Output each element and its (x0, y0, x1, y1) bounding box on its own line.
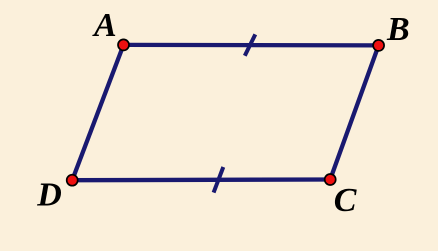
svg-text:B: B (386, 11, 410, 48)
wire side AB (124, 43, 379, 48)
wire side BC (330, 45, 378, 179)
svg-text:D: D (36, 176, 62, 213)
svg-text:C: C (334, 182, 357, 219)
tick mark on AB (245, 34, 256, 55)
node A (118, 39, 129, 50)
node D (67, 175, 78, 186)
wire side DC (72, 177, 330, 182)
node C (325, 174, 336, 185)
svg-text:A: A (92, 7, 117, 44)
tick mark on DC (214, 167, 224, 193)
wire side AD (72, 45, 123, 180)
node B (373, 40, 384, 51)
